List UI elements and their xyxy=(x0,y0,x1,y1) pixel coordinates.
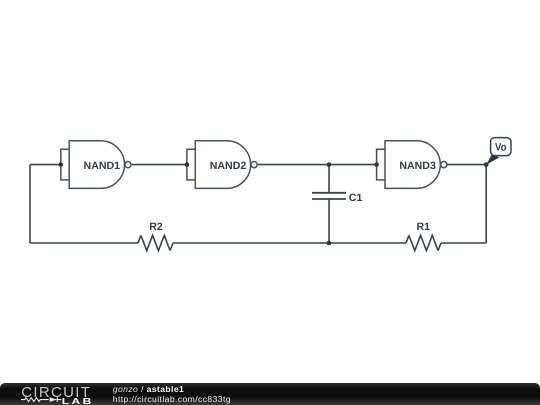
svg-text:NAND1: NAND1 xyxy=(84,160,121,172)
svg-text:LAB: LAB xyxy=(62,398,94,405)
svg-text:Vo: Vo xyxy=(495,142,507,154)
svg-text:NAND2: NAND2 xyxy=(210,160,247,172)
svg-text:NAND3: NAND3 xyxy=(399,160,436,172)
svg-text:R1: R1 xyxy=(417,221,431,233)
svg-text:C1: C1 xyxy=(349,192,363,204)
svg-text:R2: R2 xyxy=(149,221,163,233)
